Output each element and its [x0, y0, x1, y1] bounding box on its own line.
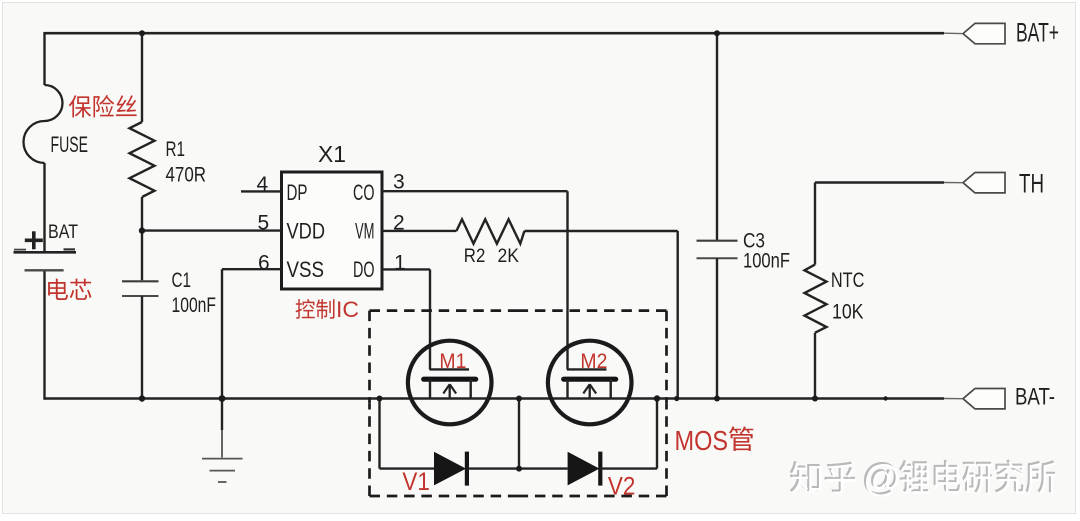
- svg-text:5: 5: [258, 211, 270, 234]
- svg-text:MOS: MOS: [675, 425, 729, 456]
- svg-text:X1: X1: [318, 141, 346, 167]
- svg-text:FUSE: FUSE: [51, 132, 89, 157]
- svg-text:DP: DP: [287, 180, 308, 205]
- svg-text:M2: M2: [580, 349, 607, 373]
- svg-text:1: 1: [394, 252, 406, 275]
- svg-text:DO: DO: [353, 257, 375, 282]
- svg-text:BAT+: BAT+: [1016, 18, 1059, 48]
- svg-text:R2: R2: [464, 245, 486, 267]
- svg-text:2K: 2K: [498, 245, 520, 267]
- svg-text:R1: R1: [166, 138, 186, 161]
- svg-text:BAT-: BAT-: [1015, 384, 1055, 411]
- svg-text:IC: IC: [336, 297, 359, 322]
- svg-text:4: 4: [257, 173, 269, 196]
- svg-text:@: @: [863, 459, 902, 501]
- svg-text:VM: VM: [355, 219, 375, 244]
- svg-text:VSS: VSS: [287, 257, 325, 282]
- svg-text:V2: V2: [608, 473, 636, 501]
- svg-text:TH: TH: [1019, 169, 1044, 199]
- svg-text:BAT: BAT: [48, 222, 78, 243]
- svg-text:3: 3: [393, 170, 405, 193]
- svg-text:10K: 10K: [832, 300, 864, 323]
- svg-text:M1: M1: [439, 349, 466, 373]
- svg-text:2: 2: [393, 212, 405, 235]
- svg-text:CO: CO: [353, 180, 375, 205]
- svg-text:100nF: 100nF: [172, 294, 217, 317]
- svg-text:6: 6: [258, 251, 270, 274]
- svg-text:VDD: VDD: [287, 219, 326, 244]
- svg-text:NTC: NTC: [831, 269, 865, 292]
- svg-text:C1: C1: [172, 269, 192, 292]
- svg-text:100nF: 100nF: [743, 250, 790, 273]
- svg-text:470R: 470R: [166, 163, 207, 186]
- svg-text:V1: V1: [402, 468, 430, 496]
